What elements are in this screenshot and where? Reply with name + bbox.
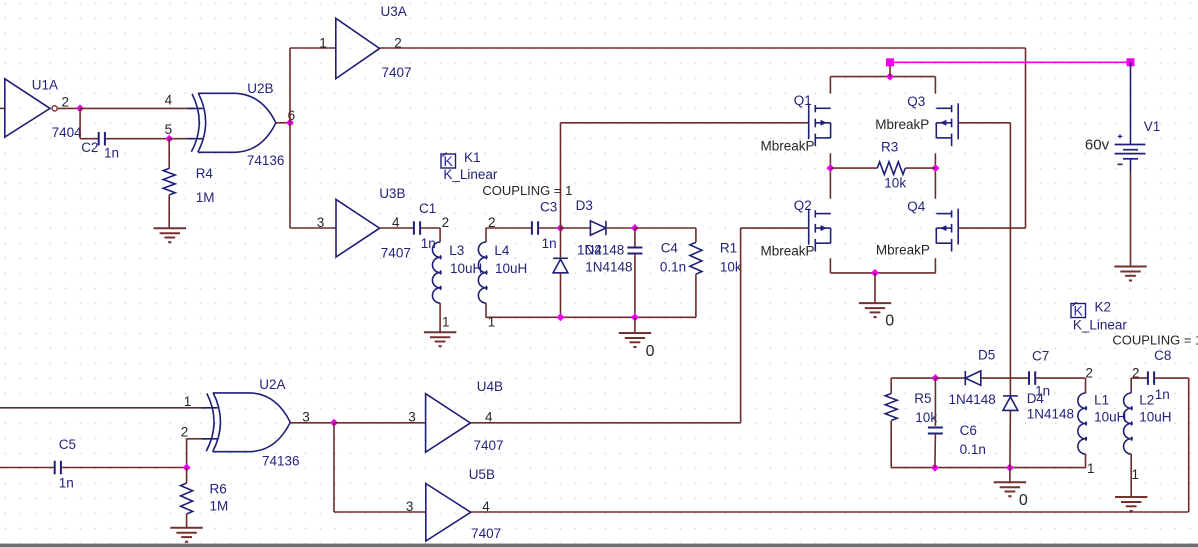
pin 3 of U3B: [317, 215, 325, 230]
inverter U1A: [5, 79, 57, 137]
svg-text:2: 2: [62, 95, 70, 110]
label R6: [210, 481, 227, 496]
wire C6 bottom: [934, 434, 937, 468]
svg-text:1n: 1n: [421, 236, 436, 251]
junction U2B out: [286, 119, 294, 127]
svg-text:L1: L1: [1094, 393, 1109, 408]
wire left rail: [829, 153, 831, 198]
junction mid rail right: [931, 164, 939, 172]
svg-text:U3B: U3B: [379, 186, 405, 201]
svg-text:1n: 1n: [542, 236, 557, 251]
value 1N4148 of D4: [1027, 407, 1074, 422]
transistor Q1: [809, 103, 831, 146]
wire C8 right: [1155, 377, 1189, 379]
svg-text:1: 1: [442, 315, 450, 330]
resistor R5: [885, 394, 897, 421]
capacitor C5: [55, 461, 61, 475]
wire pin2 stub: [187, 438, 207, 440]
svg-text:U3A: U3A: [381, 4, 407, 19]
resistor R4: [163, 168, 175, 195]
wire down to U3B: [289, 123, 291, 228]
svg-text:10uH: 10uH: [1094, 410, 1126, 425]
wire R6 bottom: [186, 514, 188, 528]
wire D4 bottom: [1009, 410, 1012, 467]
net 0 label mid: [646, 343, 655, 360]
label U5B: [469, 467, 495, 482]
svg-text:COUPLING = 1: COUPLING = 1: [482, 183, 572, 198]
ground under L3: [424, 332, 456, 346]
label U2B: [247, 81, 273, 96]
junction D4 bottom: [1006, 464, 1014, 472]
wire C5 right: [62, 467, 187, 469]
junction U2A out: [330, 419, 338, 427]
wire U2A pin1: [0, 407, 207, 409]
svg-text:MbreakP: MbreakP: [761, 139, 815, 154]
wire node up: [560, 123, 562, 228]
wire right rail: [934, 153, 936, 198]
value 10k of R1: [720, 260, 742, 275]
wire U2B output: [276, 122, 290, 124]
wire U3A output: [380, 47, 1026, 49]
resistor R6: [181, 483, 193, 514]
wire R1 top: [695, 228, 697, 242]
net 0 label bridge: [885, 312, 894, 329]
wire U2A output: [290, 422, 334, 424]
wire U1A output: [58, 107, 81, 109]
value MbreakP of Q1: [761, 139, 815, 154]
wire magenta bus: [890, 61, 1131, 63]
pin 2 of L4: [488, 215, 496, 230]
wire Q1 drain: [829, 77, 831, 94]
label 7407 of U3A: [382, 65, 412, 80]
label C4: [661, 241, 679, 256]
svg-text:R5: R5: [914, 391, 931, 406]
svg-text:K_Linear: K_Linear: [1073, 318, 1128, 333]
svg-text:7407: 7407: [382, 65, 412, 80]
pin 2 of U1A: [62, 95, 70, 110]
svg-text:0.1n: 0.1n: [960, 442, 986, 457]
svg-text:MbreakP: MbreakP: [761, 244, 815, 259]
svg-text:MbreakP: MbreakP: [876, 243, 930, 258]
resistor R3: [877, 162, 905, 175]
buffer U3A: [336, 18, 380, 78]
svg-text:U4B: U4B: [477, 379, 503, 394]
wire to U3A pin1: [290, 47, 336, 49]
svg-text:MbreakP: MbreakP: [875, 117, 929, 132]
svg-text:1n: 1n: [104, 146, 119, 161]
wire Q4 gate: [958, 227, 1025, 229]
pin 1 of L1: [1087, 461, 1095, 476]
text COUPLING = 1 of K1: [482, 183, 572, 198]
svg-text:Q4: Q4: [907, 199, 926, 214]
svg-text:K_Linear: K_Linear: [443, 167, 498, 182]
inductor L2: [1124, 393, 1133, 454]
wire R5 bottom: [890, 421, 892, 468]
svg-text:1n: 1n: [1155, 387, 1170, 402]
label Q3: [907, 94, 925, 109]
svg-text:C2: C2: [81, 140, 98, 155]
buffer U4B: [426, 394, 471, 453]
text COUPLING = 1 of K2: [1112, 332, 1198, 347]
wire V1 bottom pin: [1130, 159, 1132, 172]
svg-text:R3: R3: [881, 140, 898, 155]
label L1: [1094, 393, 1109, 408]
label 74136 of U2B: [247, 153, 285, 168]
wire to U4B: [334, 422, 426, 424]
svg-text:6: 6: [288, 108, 296, 123]
pin 2 of L3: [442, 215, 450, 230]
node square right: [1127, 58, 1135, 66]
diode D2: [553, 258, 568, 273]
svg-text:D5: D5: [978, 348, 995, 363]
svg-text:1: 1: [184, 394, 192, 409]
svg-text:R1: R1: [720, 240, 737, 255]
svg-text:C6: C6: [960, 423, 977, 438]
svg-text:2: 2: [1085, 366, 1093, 381]
battery V1: [1115, 134, 1146, 164]
wire D5 to C7: [981, 377, 1030, 379]
label U3A: [381, 4, 407, 19]
svg-text:C5: C5: [59, 437, 76, 452]
junction D3/C4/R1: [631, 224, 639, 232]
pin 1 of U2A: [184, 394, 192, 409]
pin 2 of U2A: [181, 424, 189, 439]
label D5: [978, 348, 995, 363]
junction C3/D2/D3: [557, 224, 565, 232]
svg-text:C1: C1: [419, 201, 436, 216]
svg-text:60v: 60v: [1085, 136, 1110, 153]
svg-text:K1: K1: [464, 150, 481, 165]
pin 4 of U5B: [482, 499, 490, 514]
label Q2: [794, 198, 812, 213]
label Q1: [794, 93, 812, 108]
xor gate U2B: [188, 93, 276, 152]
net 0 label out: [1019, 492, 1028, 509]
wire L4 to C3: [486, 227, 532, 229]
svg-text:C8: C8: [1154, 348, 1171, 363]
svg-text:1: 1: [1132, 467, 1140, 482]
label L3: [449, 243, 464, 258]
junction C4 bottom: [631, 313, 639, 321]
wire R4 top: [168, 139, 170, 169]
wire U4B out: [470, 422, 740, 424]
buffer U5B: [426, 484, 471, 542]
wire V1 top: [1130, 62, 1132, 144]
wire D2 bottom: [560, 273, 562, 318]
svg-text:U2B: U2B: [247, 81, 273, 96]
coupling symbol K2: [1071, 302, 1086, 319]
pin 1 of L4: [488, 315, 496, 330]
wire L1 bottom: [1085, 454, 1087, 468]
svg-text:K2: K2: [1095, 300, 1112, 315]
junction bridge top: [886, 73, 894, 81]
wire C6 top: [934, 378, 936, 426]
capacitor C1: [414, 221, 420, 235]
capacitor C3: [532, 221, 538, 235]
value 1N4148 of D3: [577, 242, 624, 257]
svg-text:3: 3: [408, 410, 416, 425]
wire Q3 gate drop: [1009, 123, 1011, 396]
label D4: [1027, 391, 1045, 406]
wire L4 top: [485, 228, 487, 242]
wire L3 top: [439, 228, 441, 242]
wire R5 drop: [890, 378, 892, 393]
wire V1 bottom: [1130, 172, 1132, 267]
label K2: [1095, 300, 1112, 315]
label C6: [960, 423, 977, 438]
ground node 0 out: [994, 482, 1026, 496]
svg-text:10uH: 10uH: [450, 261, 482, 276]
svg-text:7404: 7404: [52, 125, 83, 140]
value 1M of R4: [196, 190, 215, 205]
ground node 0 mid: [619, 333, 651, 347]
svg-text:D2: D2: [585, 242, 602, 257]
ground under V1: [1114, 267, 1146, 281]
svg-text:0.1n: 0.1n: [660, 260, 686, 275]
svg-text:U5B: U5B: [469, 467, 495, 482]
ground node 0 bridge: [859, 303, 891, 317]
wire feedback drop: [1188, 378, 1190, 512]
svg-text:L2: L2: [1139, 393, 1154, 408]
pin 4 of U3B: [392, 215, 400, 230]
diode D4: [1003, 396, 1018, 411]
wire to Q1 gate: [561, 122, 809, 124]
value 10k of R5: [915, 410, 937, 425]
svg-text:R4: R4: [196, 166, 214, 181]
pin 3 of U5B: [406, 499, 414, 514]
pin 5 of U2B: [165, 122, 173, 137]
label U1A: [32, 78, 58, 93]
label U2A: [259, 377, 285, 392]
value 1n of C2: [104, 146, 119, 161]
wire C5 left: [0, 467, 54, 469]
svg-text:R6: R6: [210, 481, 227, 496]
capacitor C2: [99, 132, 105, 146]
wire U5B drop: [333, 423, 335, 512]
label R3: [881, 140, 898, 155]
value 10uH of L1: [1094, 410, 1126, 425]
wire bridge top rail: [830, 76, 935, 78]
wire bottom rail: [486, 316, 696, 318]
junction C6 bottom: [931, 464, 939, 472]
wire D2 top: [560, 228, 562, 258]
junction C5/R6: [183, 464, 191, 472]
value 1n of C8: [1155, 387, 1170, 402]
svg-text:1: 1: [1087, 461, 1095, 476]
wire L2 to C8: [1131, 377, 1147, 379]
svg-text:10uH: 10uH: [1139, 410, 1171, 425]
wire C3 to node: [539, 227, 561, 229]
wire down to C2: [79, 108, 81, 138]
resistor R1: [690, 242, 702, 274]
wire bridge gnd stub: [874, 273, 876, 303]
wire D3 to node: [606, 227, 635, 229]
wire C4 top: [634, 228, 636, 247]
label C1: [419, 201, 436, 216]
svg-text:Q3: Q3: [907, 94, 925, 109]
svg-text:L4: L4: [494, 243, 510, 258]
svg-text:0: 0: [1019, 492, 1028, 509]
value 1N4148 of D5: [949, 392, 996, 407]
transistor Q3: [936, 103, 958, 146]
svg-text:4: 4: [482, 499, 490, 514]
wire down to Q4 gate: [1025, 48, 1027, 228]
pin 2 of L1: [1085, 366, 1093, 381]
capacitor C4: [627, 248, 642, 254]
value 1M of R6: [210, 499, 229, 514]
label V1: [1144, 119, 1161, 134]
transistor Q2: [809, 209, 831, 252]
wire D4 drop: [1009, 395, 1011, 397]
wire R1 bottom: [695, 274, 697, 317]
value MbreakP of Q4: [876, 243, 930, 258]
svg-text:10uH: 10uH: [495, 261, 527, 276]
pin 4 of U4B: [485, 410, 493, 425]
svg-text:10k: 10k: [884, 175, 906, 190]
svg-text:3: 3: [302, 410, 310, 425]
label C5: [59, 437, 76, 452]
label Q4: [907, 199, 926, 214]
junction D2 bottom: [557, 313, 565, 321]
label 7407 of U3B: [381, 246, 411, 261]
svg-text:COUPLING = 1: COUPLING = 1: [1112, 332, 1198, 347]
inductor L4: [478, 242, 487, 303]
svg-text:7407: 7407: [381, 246, 411, 261]
svg-text:1M: 1M: [210, 499, 229, 514]
wire U5B long: [471, 511, 1189, 513]
wire R4 bottom: [168, 195, 170, 228]
wire Q3 drain: [934, 77, 936, 94]
junction bridge bottom: [871, 269, 879, 277]
diode D3: [590, 221, 606, 235]
pin 2 of U3A: [394, 35, 402, 50]
wire C4 bottom: [634, 254, 636, 317]
value MbreakP of Q3: [875, 117, 929, 132]
svg-text:10k: 10k: [915, 410, 937, 425]
svg-text:D4: D4: [1027, 391, 1045, 406]
wire out gnd stub: [1009, 468, 1011, 483]
wire C2 left: [80, 138, 98, 140]
wire L3 bottom: [439, 303, 441, 332]
wire L2 top: [1130, 378, 1132, 393]
wire mid rail right: [905, 167, 935, 169]
diode D5: [965, 371, 981, 385]
wire C7 to L1: [1036, 377, 1086, 379]
svg-text:1N4148: 1N4148: [949, 392, 996, 407]
svg-text:1n: 1n: [59, 476, 74, 491]
wire U3B out: [380, 227, 413, 229]
wire to U3B pin3: [290, 227, 336, 229]
svg-text:0: 0: [885, 312, 894, 329]
value 1n of C7: [1035, 383, 1050, 398]
wire R6 top: [186, 468, 188, 484]
ground under L2: [1115, 497, 1147, 511]
wire Q3 gate: [958, 122, 1010, 124]
wire out bottom rail: [891, 467, 1085, 469]
svg-text:U1A: U1A: [32, 78, 58, 93]
pin 4 of U2B: [165, 92, 173, 107]
label C8: [1154, 348, 1171, 363]
value 0.1n of C6: [960, 442, 986, 457]
pin 3 of U2A: [302, 410, 310, 425]
svg-text:74136: 74136: [262, 454, 300, 469]
label K_Linear of K1: [443, 167, 498, 182]
value 60v: [1085, 136, 1110, 153]
wire bridge bottom rail: [830, 272, 935, 274]
node square left: [886, 58, 894, 66]
wire up to U3A: [289, 48, 291, 123]
capacitor C6: [928, 428, 943, 434]
wire to D5: [935, 377, 965, 379]
wire C2 right: [106, 138, 170, 140]
label R1: [720, 240, 737, 255]
value 1N4148 of D2: [585, 260, 632, 275]
svg-text:1N4148: 1N4148: [585, 260, 632, 275]
label D3: [576, 198, 593, 213]
wire U1A input stub: [0, 107, 5, 109]
pin 1 of L3: [442, 315, 450, 330]
svg-text:D3: D3: [576, 198, 593, 213]
junction C2/R4/pin5: [165, 135, 173, 143]
value 0.1n of C4: [660, 260, 686, 275]
wire L2 bottom: [1130, 454, 1132, 497]
svg-text:5: 5: [165, 122, 173, 137]
transistor Q4: [936, 209, 958, 252]
svg-text:3: 3: [406, 499, 414, 514]
window bottom edge: [0, 544, 1198, 547]
svg-text:10k: 10k: [720, 260, 742, 275]
label 7407 of U4B: [474, 438, 504, 453]
label L4: [494, 243, 510, 258]
svg-text:3: 3: [317, 215, 325, 230]
wire Q2 source riser: [829, 258, 831, 273]
value MbreakP of Q2: [761, 244, 815, 259]
wire R5 top: [891, 377, 935, 379]
wire L1 top: [1085, 378, 1087, 393]
label 74136 of U2A: [262, 454, 300, 469]
svg-text:7407: 7407: [471, 526, 501, 541]
label D2: [585, 242, 602, 257]
wire to D3: [561, 227, 591, 229]
wire gnd stub: [634, 317, 636, 333]
ground under R6: [170, 528, 202, 542]
svg-text:74136: 74136: [247, 153, 285, 168]
value 1n of C3: [542, 236, 557, 251]
svg-text:C7: C7: [1032, 349, 1049, 364]
inductor L3: [432, 242, 441, 303]
svg-text:U2A: U2A: [259, 377, 285, 392]
label R5: [914, 391, 931, 406]
svg-text:1M: 1M: [196, 190, 215, 205]
svg-text:L3: L3: [449, 243, 464, 258]
label L2: [1139, 393, 1154, 408]
svg-text:7407: 7407: [474, 438, 504, 453]
wire pin5: [169, 138, 193, 140]
ground under R4: [154, 228, 186, 242]
value 1n of C1: [421, 236, 436, 251]
value 10uH of L4: [495, 261, 527, 276]
svg-text:0: 0: [646, 343, 655, 360]
svg-text:1: 1: [319, 35, 327, 50]
label C2: [81, 140, 98, 155]
capacitor C7: [1029, 371, 1035, 385]
svg-text:2: 2: [181, 424, 189, 439]
pin 3 of U4B: [408, 410, 416, 425]
label U4B: [477, 379, 503, 394]
capacitor C8: [1148, 371, 1154, 385]
pin 1 of L2: [1132, 467, 1140, 482]
coupling symbol K1: [441, 153, 456, 170]
